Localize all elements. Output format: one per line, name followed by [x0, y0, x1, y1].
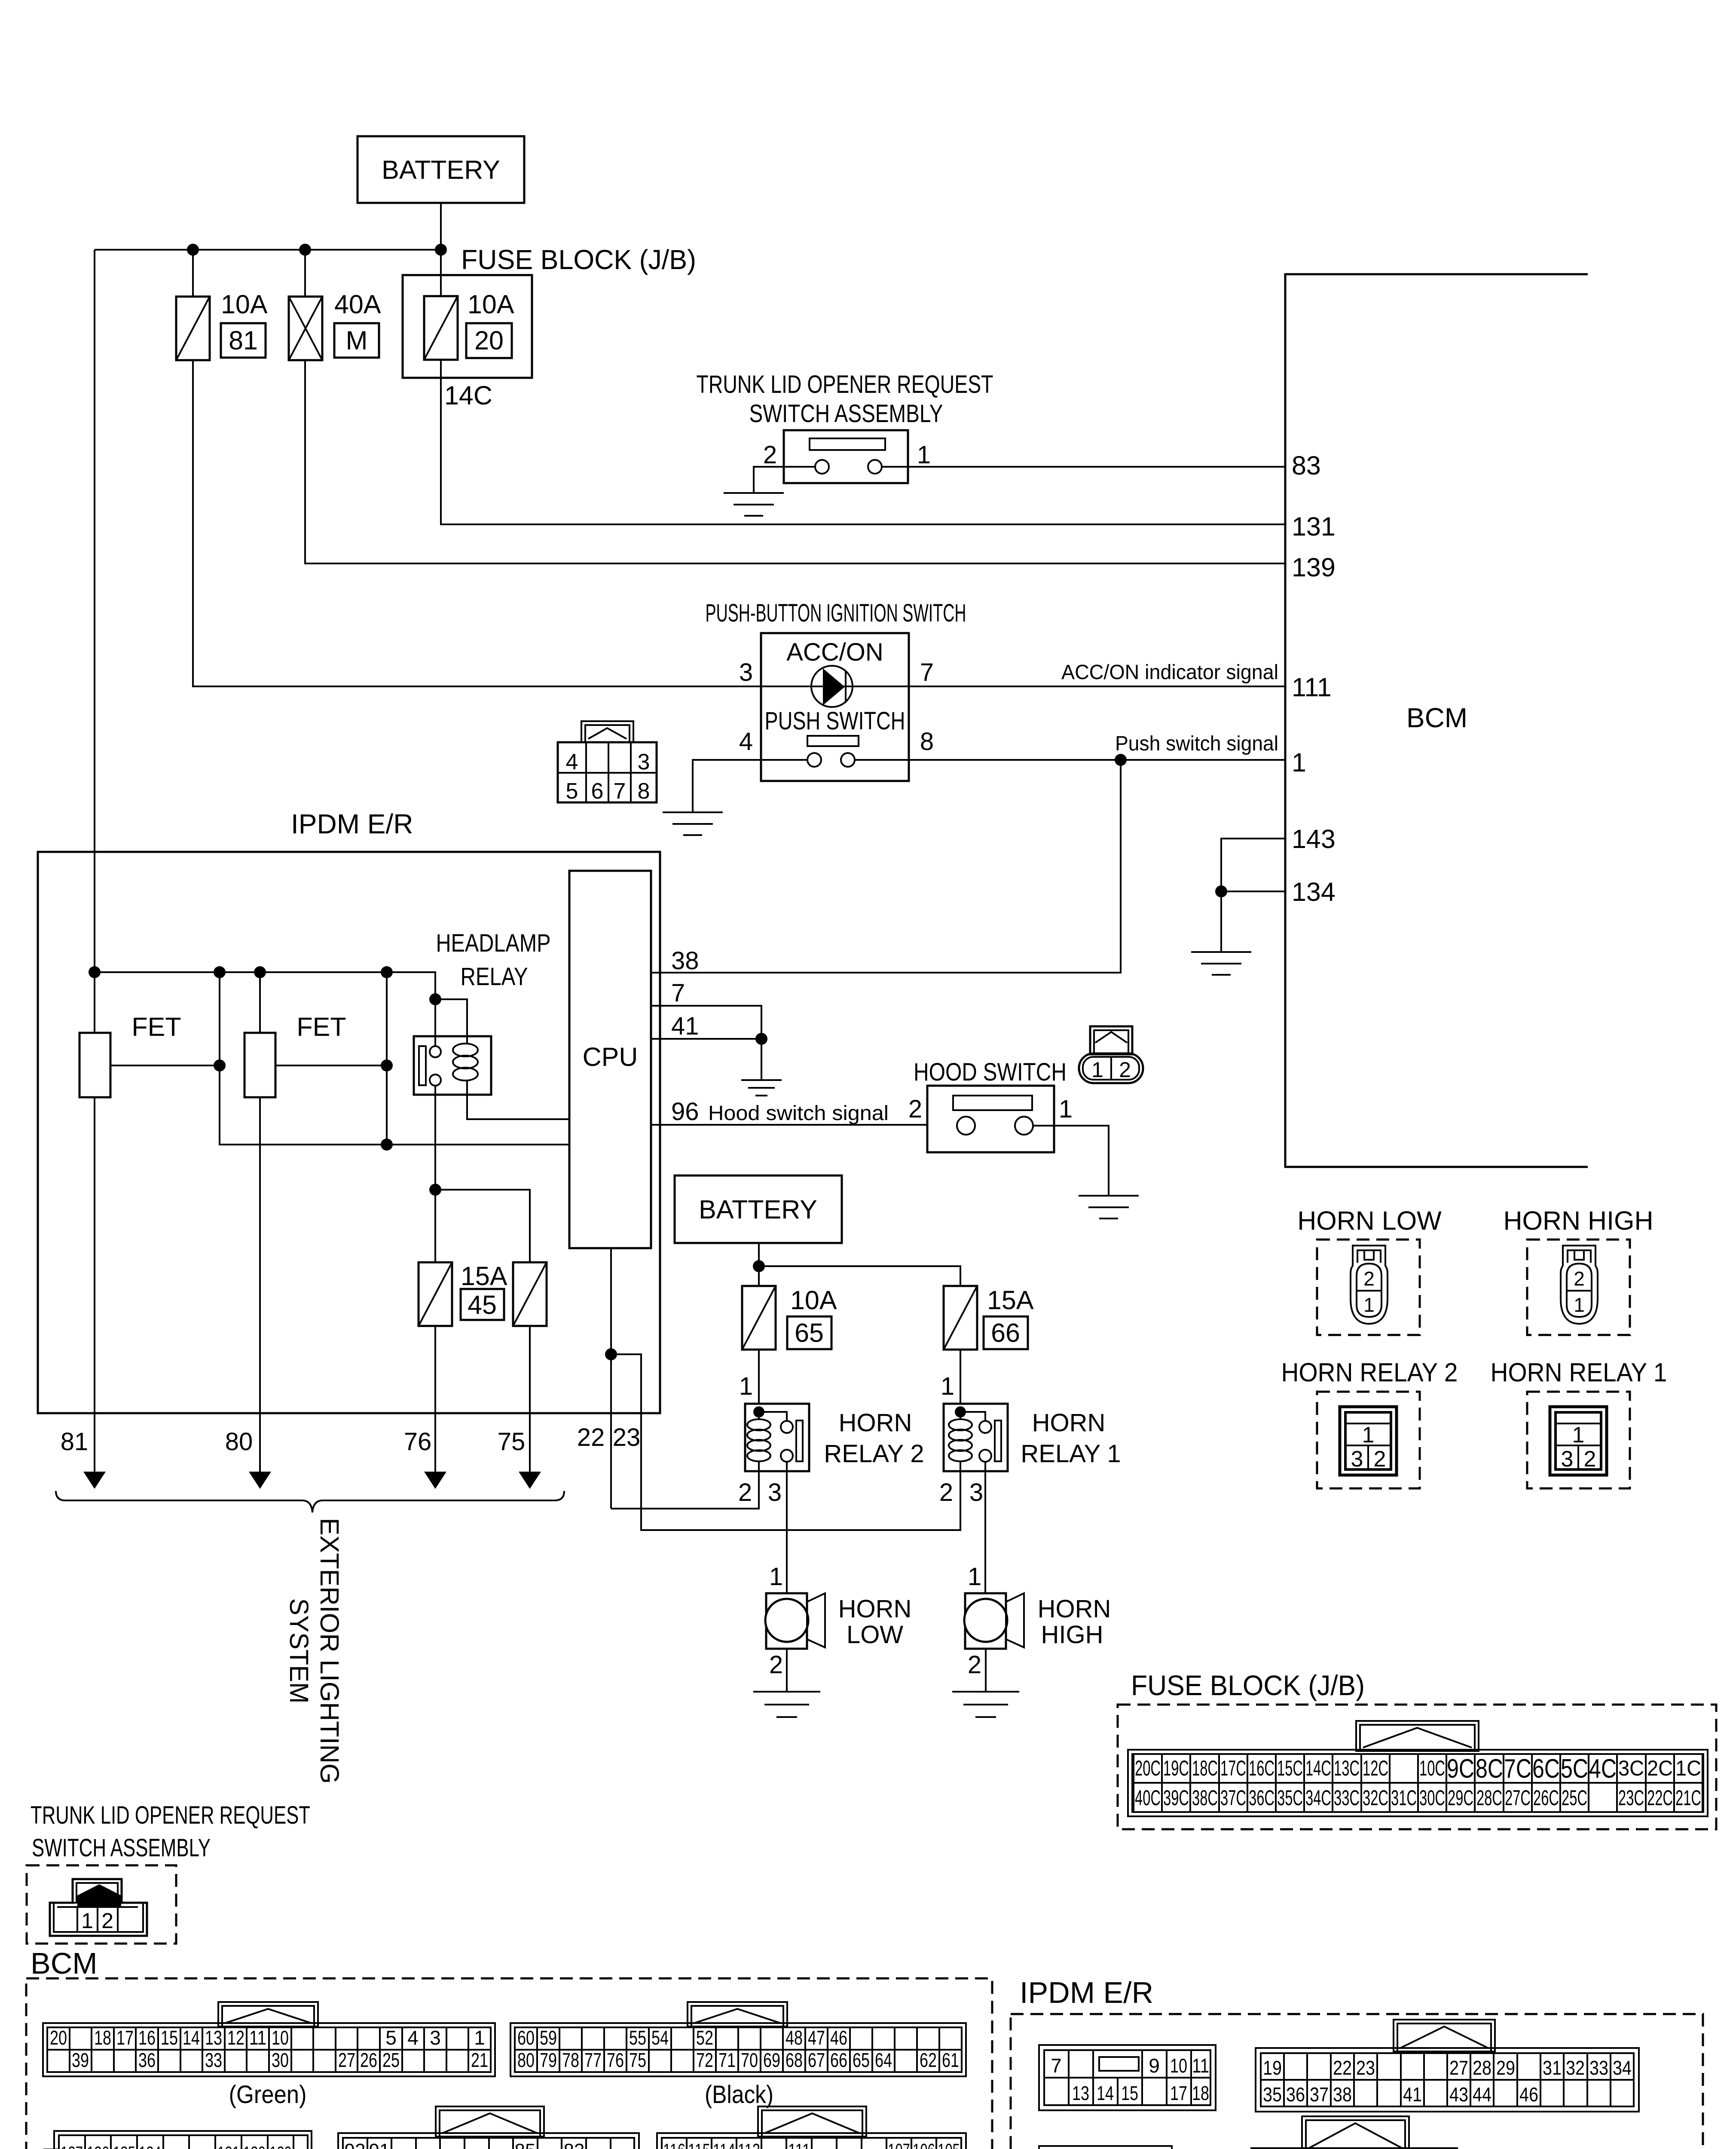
- svg-text:116: 116: [663, 2140, 685, 2149]
- svg-text:136: 136: [87, 2143, 109, 2149]
- svg-text:7: 7: [920, 658, 934, 686]
- svg-text:Hood switch signal: Hood switch signal: [708, 1102, 889, 1125]
- brace exterior lighting system: [56, 1491, 564, 1512]
- value box 66: [984, 1316, 1028, 1349]
- svg-text:83: 83: [1292, 451, 1321, 480]
- svg-text:3: 3: [430, 2027, 441, 2049]
- svg-text:23C: 23C: [1618, 1786, 1644, 1810]
- svg-text:FUSE BLOCK (J/B): FUSE BLOCK (J/B): [461, 244, 696, 275]
- fuse block connector body: [1128, 1721, 1708, 1816]
- svg-text:83: 83: [564, 2140, 585, 2149]
- svg-text:17: 17: [116, 2027, 134, 2049]
- svg-text:66: 66: [830, 2049, 847, 2071]
- svg-text:10: 10: [272, 2027, 289, 2049]
- svg-text:32: 32: [1566, 2057, 1585, 2079]
- wire FET2 drain: [275, 1065, 387, 1066]
- push switch contacts: [807, 736, 859, 767]
- svg-text:9C: 9C: [1447, 1754, 1474, 1784]
- wire relay coil to CPU: [467, 1080, 569, 1119]
- wire relay1 pin3 to horn high: [984, 1471, 986, 1593]
- node junction bus-battery: [435, 244, 447, 256]
- ground trunk switch: [724, 493, 784, 516]
- BCM connector views box: [26, 1978, 992, 2149]
- svg-text:78: 78: [562, 2049, 579, 2071]
- wire horn high to ground: [985, 1649, 987, 1692]
- ground hood switch: [1079, 1196, 1139, 1218]
- svg-text:80: 80: [225, 1428, 253, 1456]
- svg-text:65: 65: [795, 1318, 824, 1347]
- wire arrow output x1233: [519, 1413, 541, 1489]
- svg-text:3C: 3C: [1618, 1756, 1644, 1780]
- horn relay 1 K3: [944, 1404, 1008, 1471]
- label EXTERIOR LIGHTING SYSTEM (rotated): [284, 1518, 344, 1784]
- svg-text:1C: 1C: [1675, 1756, 1701, 1780]
- svg-text:2: 2: [1363, 1267, 1375, 1290]
- wire BCM pin 134: [1221, 891, 1285, 892]
- horn high connector view: [1527, 1240, 1630, 1335]
- svg-text:40C: 40C: [1135, 1786, 1161, 1810]
- svg-text:(Black): (Black): [705, 2081, 773, 2109]
- svg-text:FUSE BLOCK (J/B): FUSE BLOCK (J/B): [1131, 1669, 1365, 1701]
- value box 20: [466, 323, 512, 358]
- svg-text:41: 41: [1403, 2083, 1422, 2106]
- svg-text:FET: FET: [131, 1012, 181, 1041]
- hood switch S3: [927, 1086, 1054, 1152]
- svg-text:2: 2: [101, 1909, 113, 1933]
- wire output 81 through FET1: [94, 972, 95, 1413]
- svg-text:96: 96: [671, 1098, 699, 1126]
- BCM connector green: [43, 2002, 495, 2076]
- svg-text:21C: 21C: [1675, 1786, 1701, 1810]
- wire arrow output x1013: [424, 1413, 446, 1489]
- wire push switch pin8 to BCM pin 1: [855, 759, 1285, 761]
- svg-text:1: 1: [739, 1372, 753, 1400]
- fuse block connector pin grid: [1134, 1754, 1702, 1812]
- svg-text:12: 12: [227, 2027, 245, 2049]
- svg-text:46: 46: [1519, 2083, 1538, 2106]
- svg-text:76: 76: [404, 1428, 432, 1456]
- svg-text:106: 106: [913, 2140, 935, 2149]
- svg-text:ACC/ON: ACC/ON: [786, 638, 883, 666]
- svg-text:PUSH-BUTTON IGNITION SWITCH: PUSH-BUTTON IGNITION SWITCH: [706, 599, 966, 627]
- svg-text:135: 135: [113, 2143, 135, 2149]
- svg-text:62: 62: [920, 2049, 937, 2071]
- svg-text:52: 52: [696, 2027, 713, 2049]
- svg-text:IPDM E/R: IPDM E/R: [291, 808, 413, 839]
- svg-text:20: 20: [474, 326, 504, 355]
- svg-text:1: 1: [474, 2027, 485, 2049]
- svg-text:2: 2: [1574, 1267, 1585, 1290]
- svg-text:5: 5: [385, 2027, 397, 2049]
- svg-text:HORN RELAY 2: HORN RELAY 2: [1281, 1358, 1458, 1387]
- svg-text:1: 1: [1572, 1423, 1585, 1448]
- wire relay coil feed: [435, 999, 467, 1044]
- svg-text:30: 30: [272, 2049, 289, 2071]
- fuse 10A 65: [742, 1286, 776, 1350]
- IPDM connector 85-96: [1251, 2116, 1457, 2149]
- svg-text:36: 36: [138, 2049, 156, 2071]
- wire CPU pin 7: [651, 1006, 761, 1039]
- node bus-right: [381, 966, 393, 978]
- svg-text:HORN: HORN: [838, 1595, 912, 1623]
- svg-text:72: 72: [696, 2049, 713, 2071]
- svg-text:4: 4: [739, 728, 753, 756]
- wire output 75: [529, 1326, 531, 1413]
- fuse 15A 66: [944, 1286, 977, 1350]
- node bus-FET1: [214, 966, 226, 978]
- svg-text:38: 38: [1333, 2083, 1352, 2106]
- node 7/41 junction: [755, 1033, 767, 1045]
- value box 65: [787, 1316, 831, 1349]
- svg-text:31: 31: [1543, 2057, 1562, 2079]
- svg-text:15A: 15A: [987, 1286, 1034, 1315]
- BCM connector black 105-128: [657, 2106, 966, 2149]
- svg-text:1: 1: [941, 1372, 954, 1400]
- svg-text:80: 80: [517, 2049, 535, 2071]
- node bus-81: [89, 966, 101, 978]
- svg-text:25C: 25C: [1562, 1786, 1587, 1810]
- wire IPDM internal bus: [95, 972, 435, 999]
- BCM box U-BCM: [1285, 274, 1588, 1167]
- svg-text:4: 4: [566, 750, 578, 774]
- svg-text:2: 2: [738, 1479, 752, 1506]
- svg-text:Push switch signal: Push switch signal: [1115, 732, 1278, 755]
- wire arrow output x605: [249, 1413, 271, 1489]
- fuse block connector view box: [1118, 1705, 1716, 1829]
- svg-text:71: 71: [718, 2049, 736, 2071]
- fuse 15A left (76): [419, 1262, 452, 1326]
- svg-text:1: 1: [1292, 748, 1306, 777]
- svg-text:5C: 5C: [1561, 1754, 1588, 1784]
- svg-text:3: 3: [739, 658, 753, 686]
- svg-text:75: 75: [498, 1428, 526, 1456]
- svg-text:27C: 27C: [1505, 1786, 1531, 1810]
- svg-text:43: 43: [1449, 2083, 1468, 2106]
- wire 22 to horn relay 2: [611, 1471, 759, 1509]
- svg-text:7C: 7C: [1504, 1754, 1531, 1784]
- wire arrow output x220: [83, 1413, 106, 1489]
- svg-text:37C: 37C: [1220, 1786, 1246, 1810]
- wire output 80 below FET2: [259, 1097, 261, 1413]
- svg-text:1: 1: [81, 1909, 93, 1933]
- svg-text:41: 41: [671, 1012, 699, 1040]
- label HEADLAMP RELAY: [436, 929, 551, 991]
- svg-text:22: 22: [1333, 2057, 1352, 2079]
- horn high LS2: [964, 1593, 1024, 1649]
- svg-text:10A: 10A: [221, 290, 268, 319]
- wire relay contact feed: [434, 999, 436, 1046]
- wire CPU pin 96 to hood switch: [651, 1124, 927, 1126]
- fuse 10A 81: [176, 250, 210, 360]
- svg-text:21: 21: [471, 2049, 488, 2071]
- svg-text:34C: 34C: [1305, 1786, 1331, 1810]
- svg-text:39C: 39C: [1163, 1786, 1189, 1810]
- svg-text:25: 25: [382, 2049, 400, 2071]
- IPDM E/R box U-IPDM: [38, 852, 660, 1413]
- wire relay2 pin3 to horn low: [786, 1471, 788, 1593]
- svg-text:29: 29: [1496, 2057, 1515, 2079]
- node bus-FET2: [254, 966, 266, 978]
- svg-text:35: 35: [1263, 2083, 1282, 2106]
- svg-text:2: 2: [769, 1651, 783, 1679]
- svg-text:BATTERY: BATTERY: [699, 1195, 817, 1224]
- wire column x511 to CPU line: [220, 972, 569, 1145]
- svg-text:1: 1: [917, 441, 931, 469]
- node relay out split: [429, 1184, 441, 1196]
- ground CPU 7/41: [741, 1080, 782, 1096]
- svg-text:54: 54: [651, 2027, 669, 2049]
- svg-text:55: 55: [629, 2027, 646, 2049]
- svg-text:ACC/ON indicator signal: ACC/ON indicator signal: [1061, 661, 1278, 684]
- wire LED to BCM pin 111: [810, 686, 1285, 687]
- BCM connector black 41-80: [510, 2002, 966, 2076]
- svg-text:20C: 20C: [1135, 1756, 1161, 1780]
- svg-text:1: 1: [1574, 1294, 1585, 1316]
- svg-text:18: 18: [94, 2027, 111, 2049]
- node FET2-column: [381, 1059, 393, 1071]
- svg-text:1: 1: [1363, 1294, 1375, 1316]
- svg-text:2: 2: [763, 441, 777, 469]
- svg-text:15C: 15C: [1277, 1756, 1303, 1780]
- BCM connector 129-143: [44, 2131, 312, 2149]
- fuse block J/B box: [403, 275, 532, 378]
- ground horn high: [952, 1692, 1019, 1717]
- svg-text:22: 22: [577, 1423, 605, 1451]
- svg-text:2: 2: [1374, 1447, 1386, 1472]
- svg-text:37: 37: [1310, 2083, 1329, 2106]
- svg-text:15A: 15A: [461, 1261, 507, 1291]
- wire fuse81 to ignition switch pin3: [193, 360, 810, 686]
- svg-text:IPDM E/R: IPDM E/R: [1020, 1976, 1153, 2009]
- svg-text:36C: 36C: [1249, 1786, 1274, 1810]
- wire trunk switch pin1 to BCM pin 83: [882, 466, 1285, 468]
- svg-text:38C: 38C: [1192, 1786, 1218, 1810]
- wire battery B1 to bus: [440, 203, 442, 250]
- svg-text:70: 70: [741, 2049, 758, 2071]
- svg-text:HORN: HORN: [1032, 1409, 1106, 1437]
- svg-text:5: 5: [566, 779, 578, 804]
- svg-text:30C: 30C: [1419, 1786, 1445, 1810]
- svg-text:HORN LOW: HORN LOW: [1297, 1206, 1442, 1235]
- svg-text:79: 79: [540, 2049, 557, 2071]
- wire branch to fuse 75: [435, 1190, 530, 1262]
- svg-text:1: 1: [1059, 1095, 1073, 1123]
- svg-text:107: 107: [888, 2140, 910, 2149]
- wire CPU pin 41: [651, 1038, 761, 1040]
- svg-text:BATTERY: BATTERY: [382, 155, 500, 184]
- svg-text:39: 39: [72, 2049, 89, 2071]
- svg-text:3: 3: [768, 1479, 782, 1506]
- svg-text:LOW: LOW: [847, 1621, 903, 1649]
- node column-CPU line: [381, 1139, 393, 1151]
- trunk lid connector view: [27, 1865, 176, 1944]
- svg-text:130: 130: [243, 2143, 266, 2149]
- wire FET2 feed column: [259, 972, 261, 1033]
- svg-text:CPU: CPU: [583, 1042, 638, 1071]
- headlamp relay K1: [414, 1036, 491, 1095]
- svg-text:46: 46: [830, 2027, 847, 2049]
- battery B1 box: [358, 136, 524, 203]
- svg-text:134: 134: [1292, 877, 1336, 906]
- svg-text:44: 44: [1473, 2083, 1491, 2106]
- svg-text:17: 17: [1170, 2082, 1187, 2104]
- svg-text:143: 143: [1292, 824, 1336, 854]
- svg-text:7: 7: [614, 779, 626, 804]
- svg-text:SWITCH ASSEMBLY: SWITCH ASSEMBLY: [749, 400, 943, 428]
- svg-text:27: 27: [338, 2049, 355, 2071]
- svg-text:36: 36: [1286, 2083, 1305, 2106]
- svg-text:19C: 19C: [1163, 1756, 1189, 1780]
- fuse 10A 20: [424, 250, 458, 360]
- wire to ground: [1220, 891, 1222, 952]
- svg-text:19: 19: [1263, 2057, 1282, 2079]
- FET Q1: [79, 1033, 110, 1097]
- svg-text:1: 1: [769, 1563, 783, 1591]
- svg-text:6: 6: [591, 779, 604, 804]
- svg-text:HEADLAMP: HEADLAMP: [436, 929, 551, 957]
- svg-text:22C: 22C: [1647, 1786, 1673, 1810]
- IPDM connector 19-46: [1256, 2020, 1639, 2112]
- wire output 76: [434, 1326, 436, 1413]
- svg-text:3: 3: [638, 750, 650, 774]
- svg-text:1: 1: [968, 1563, 981, 1591]
- wire horn low to ground: [786, 1649, 788, 1692]
- value box M: [334, 323, 379, 358]
- indicator LED D1: [811, 666, 853, 707]
- node battery2 split: [753, 1260, 765, 1272]
- svg-text:14: 14: [183, 2027, 200, 2049]
- svg-text:BCM: BCM: [31, 1947, 98, 1980]
- svg-text:2: 2: [939, 1479, 953, 1506]
- svg-text:92: 92: [345, 2140, 366, 2149]
- svg-text:85: 85: [515, 2140, 536, 2149]
- svg-text:33: 33: [1589, 2057, 1608, 2079]
- svg-text:40A: 40A: [334, 290, 381, 319]
- svg-text:23: 23: [613, 1423, 641, 1451]
- horn low connector view: [1317, 1240, 1420, 1335]
- svg-text:14C: 14C: [444, 381, 492, 410]
- svg-text:1: 1: [1091, 1058, 1103, 1082]
- svg-text:3: 3: [1351, 1447, 1363, 1472]
- svg-text:HORN: HORN: [839, 1409, 912, 1437]
- wire BCM pin 143: [1221, 839, 1285, 891]
- svg-text:HORN RELAY 1: HORN RELAY 1: [1491, 1358, 1667, 1387]
- svg-text:SYSTEM: SYSTEM: [284, 1598, 314, 1704]
- svg-text:64: 64: [875, 2049, 892, 2071]
- node junction 143/134: [1215, 885, 1227, 897]
- svg-text:18: 18: [1192, 2082, 1209, 2104]
- svg-text:33C: 33C: [1334, 1786, 1360, 1810]
- svg-text:69: 69: [763, 2049, 780, 2071]
- svg-text:10: 10: [1170, 2054, 1187, 2077]
- svg-text:20: 20: [50, 2027, 67, 2049]
- fuse 40A M: [289, 250, 322, 360]
- svg-text:114: 114: [713, 2140, 735, 2149]
- wire fuse20 14C to BCM pin 131: [441, 360, 1285, 524]
- svg-text:TRUNK LID OPENER REQUEST: TRUNK LID OPENER REQUEST: [31, 1801, 310, 1829]
- svg-text:32C: 32C: [1363, 1786, 1388, 1810]
- svg-text:66: 66: [991, 1318, 1020, 1347]
- ground BCM: [1191, 952, 1251, 975]
- horn low LS1: [765, 1593, 825, 1649]
- svg-text:HOOD SWITCH: HOOD SWITCH: [914, 1058, 1067, 1086]
- svg-text:14C: 14C: [1305, 1756, 1331, 1780]
- svg-text:2: 2: [1584, 1447, 1596, 1472]
- connector hood switch 1,2: [1079, 1026, 1143, 1083]
- svg-text:115: 115: [688, 2140, 710, 2149]
- svg-text:16: 16: [138, 2027, 156, 2049]
- wire fuse40 to BCM pin 139: [305, 360, 1285, 563]
- wire pin4 to ground: [693, 760, 807, 812]
- svg-text:TRUNK LID OPENER REQUEST: TRUNK LID OPENER REQUEST: [697, 370, 993, 398]
- svg-text:4: 4: [407, 2027, 419, 2049]
- node junction bus-fuse40: [299, 244, 311, 256]
- node FET1-column: [214, 1059, 226, 1071]
- push-button ignition switch box S2: [761, 633, 909, 781]
- svg-text:35C: 35C: [1277, 1786, 1303, 1810]
- value box 81: [221, 323, 266, 358]
- svg-text:67: 67: [808, 2049, 825, 2071]
- trunk lid connector symbol: [50, 1879, 147, 1936]
- fuse 15A right (75): [513, 1262, 547, 1326]
- svg-text:27: 27: [1449, 2057, 1468, 2079]
- wire 7/41 to ground: [761, 1039, 762, 1080]
- label HORN RELAY 2: [824, 1409, 924, 1468]
- node 22/23 split: [605, 1348, 617, 1360]
- label HORN HIGH: [1038, 1595, 1111, 1649]
- svg-text:2: 2: [1119, 1058, 1131, 1082]
- wire junction down to CPU pin 38: [651, 760, 1121, 973]
- svg-text:81: 81: [229, 326, 258, 355]
- svg-text:M: M: [346, 326, 368, 355]
- wire FET1 drain: [110, 1065, 220, 1066]
- svg-text:8C: 8C: [1476, 1754, 1503, 1784]
- svg-text:13: 13: [1072, 2082, 1089, 2104]
- wire hood pin1 to ground: [1033, 1126, 1109, 1196]
- svg-text:17C: 17C: [1220, 1756, 1246, 1780]
- svg-text:111: 111: [788, 2140, 810, 2149]
- wire fuse65 to relay2 pin1: [758, 1350, 760, 1403]
- svg-text:60: 60: [517, 2027, 535, 2049]
- svg-text:4C: 4C: [1589, 1754, 1617, 1784]
- svg-text:34: 34: [1613, 2057, 1632, 2079]
- svg-text:11: 11: [249, 2027, 266, 2049]
- IPDM connector views box: [1011, 2014, 1703, 2149]
- svg-text:77: 77: [584, 2049, 602, 2071]
- svg-text:68: 68: [785, 2049, 803, 2071]
- svg-text:10A: 10A: [468, 290, 514, 319]
- svg-text:10C: 10C: [1419, 1756, 1445, 1780]
- svg-text:61: 61: [942, 2049, 959, 2071]
- svg-text:45: 45: [468, 1290, 497, 1319]
- svg-text:2: 2: [968, 1651, 981, 1679]
- svg-text:EXTERIOR LIGHTING: EXTERIOR LIGHTING: [315, 1518, 344, 1784]
- wire branch to fuse 66: [759, 1266, 960, 1286]
- svg-text:RELAY: RELAY: [461, 963, 528, 991]
- svg-text:12C: 12C: [1363, 1756, 1388, 1780]
- wire trunk switch pin2 to ground: [754, 467, 815, 493]
- svg-text:HORN HIGH: HORN HIGH: [1503, 1206, 1653, 1235]
- svg-text:139: 139: [1292, 553, 1336, 582]
- wire CPU pin 22: [610, 1248, 612, 1509]
- node push switch signal junction: [1115, 754, 1127, 766]
- trunk lid opener request switch S1: [784, 430, 908, 483]
- IPDM connector 74-81: [1039, 2146, 1172, 2149]
- svg-text:75: 75: [629, 2049, 646, 2071]
- svg-text:91: 91: [369, 2140, 390, 2149]
- svg-text:131: 131: [1292, 512, 1336, 541]
- svg-text:59: 59: [540, 2027, 557, 2049]
